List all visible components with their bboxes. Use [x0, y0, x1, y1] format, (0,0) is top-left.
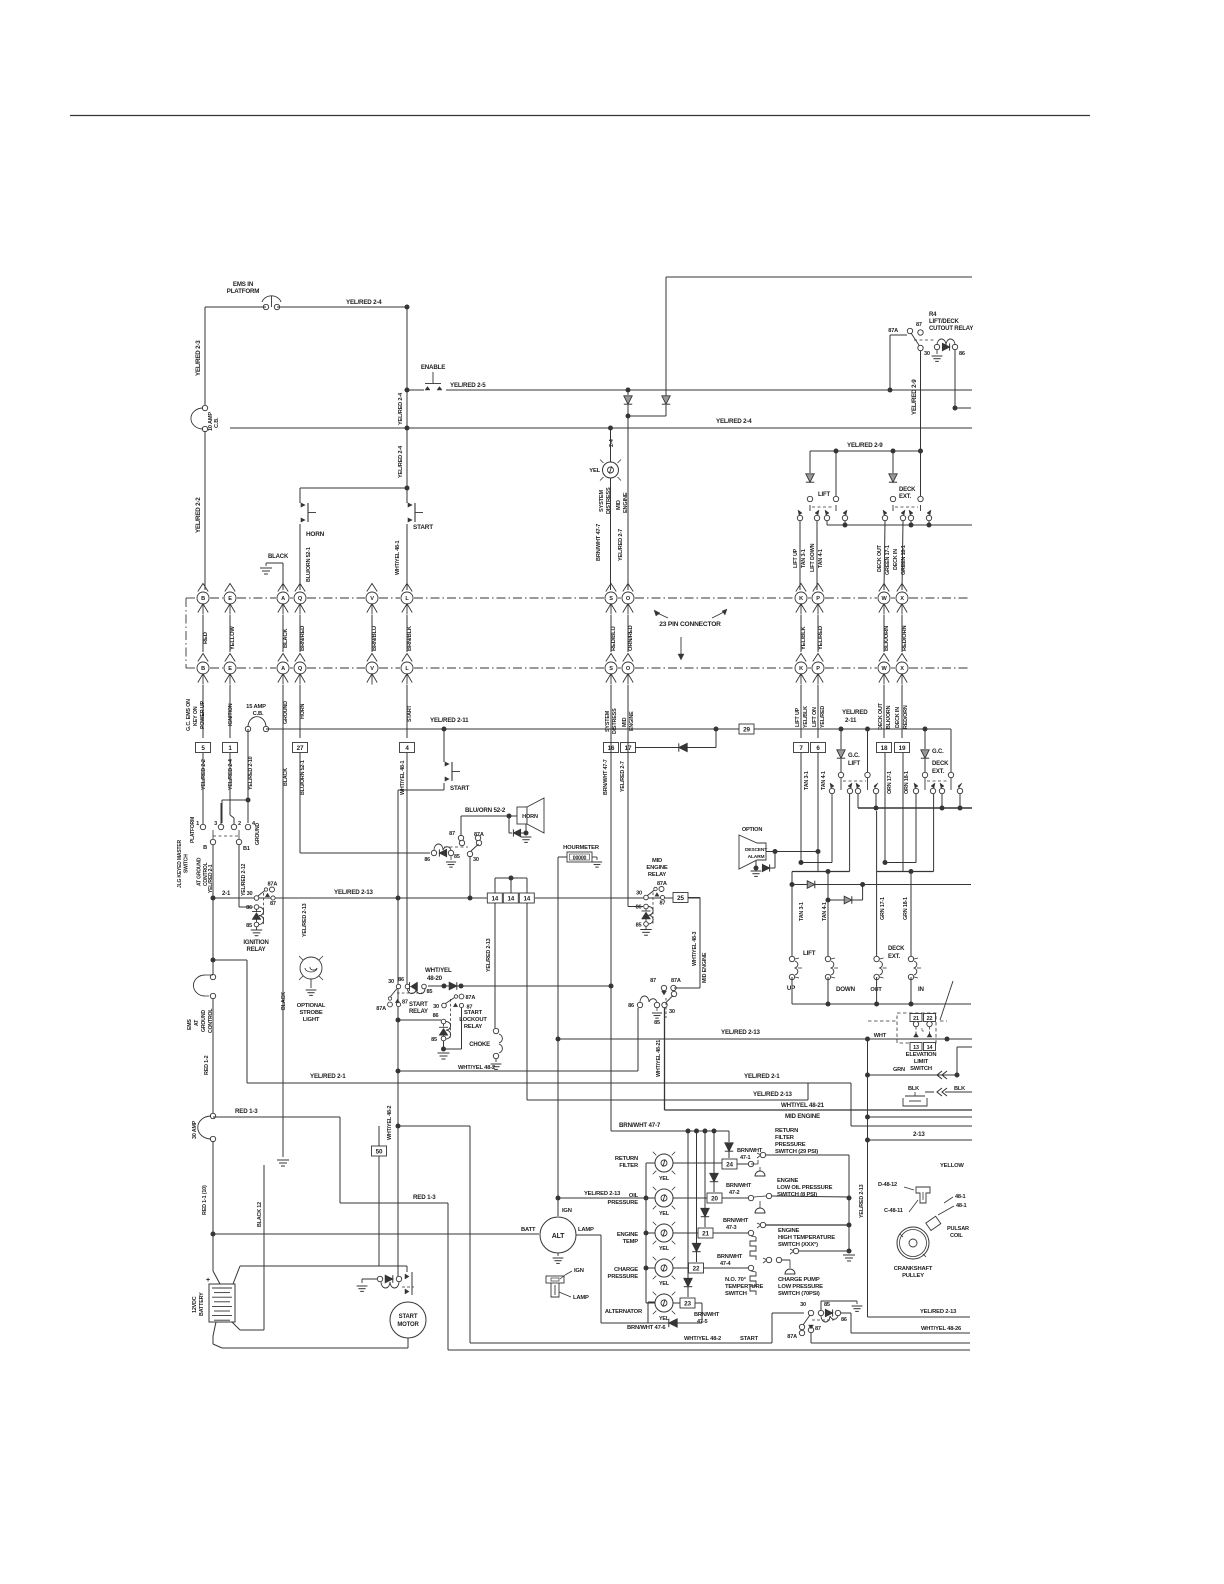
wire lift down drop [816, 521, 818, 590]
label WHT/YEL 48-21 y1110 [781, 1102, 825, 1109]
svg-text:ENGINE: ENGINE [629, 711, 635, 731]
wire between rows x372 [371, 615, 373, 652]
node bus a [843, 523, 848, 528]
svg-text:BLK: BLK [908, 1086, 919, 1092]
gc lift diode [837, 729, 861, 767]
label DECK EXT relay [899, 487, 916, 500]
elevation switch contacts [910, 1014, 936, 1051]
wire WHT/YEL 48-1 drop [406, 753, 408, 984]
svg-text:LIFT ON: LIFT ON [812, 707, 818, 727]
label BRN/WHT 47-1 [737, 1148, 763, 1161]
svg-text:DECK: DECK [899, 487, 916, 493]
svg-text:87A: 87A [787, 1334, 797, 1340]
node 2-13 c [468, 896, 473, 901]
wire deck out drop [884, 521, 885, 590]
svg-text:22: 22 [693, 1265, 700, 1272]
svg-text:BLK: BLK [954, 1086, 965, 1092]
node batt [211, 1232, 216, 1237]
svg-text:K: K [799, 596, 803, 602]
box 29 inline [739, 724, 754, 734]
wire start lower out [398, 783, 444, 790]
svg-text:YEL/RED 2-3: YEL/RED 2-3 [195, 340, 202, 376]
svg-text:DISTRESS: DISTRESS [606, 487, 612, 514]
svg-text:DESCENT: DESCENT [745, 847, 767, 853]
label YEL/RED 2-2 upper [195, 497, 202, 533]
svg-text:12VDC: 12VDC [192, 1296, 198, 1313]
lamp OIL PRESSURE [608, 1187, 676, 1217]
wire between rows x611 [610, 615, 612, 652]
svg-text:TAN 3-1: TAN 3-1 [804, 771, 810, 790]
svg-text:YEL/RED 2-13: YEL/RED 2-13 [920, 1309, 957, 1315]
ground pin A top [260, 563, 283, 590]
svg-text:YEL/RED 2-4: YEL/RED 2-4 [398, 445, 404, 478]
svg-text:B: B [203, 845, 207, 851]
svg-text:48-1: 48-1 [955, 1194, 966, 1200]
svg-text:2-1: 2-1 [222, 891, 231, 897]
switch 8psi [754, 1193, 849, 1213]
label D-48-12 [878, 1182, 897, 1188]
node sol ret c [909, 1002, 914, 1007]
label YEL/RED 2-13 main [334, 889, 373, 896]
solenoid LIFT UP [787, 885, 816, 993]
label WHT/YEL 48-1 upper [395, 541, 401, 575]
wire ems jog [213, 960, 247, 1083]
wire lamp3 to 21 [673, 1228, 754, 1238]
wire row2 to boxes x230 [229, 685, 231, 738]
wire distress lamp feed [610, 428, 612, 462]
relay AUX coil [812, 1302, 847, 1323]
svg-text:47-2: 47-2 [729, 1190, 740, 1196]
wire GRN line [865, 1047, 972, 1079]
relay R4 LIFT/DECK CUTOUT label [929, 312, 973, 332]
svg-text:47-1: 47-1 [740, 1155, 751, 1161]
label RED 1-2 [204, 1055, 210, 1075]
svg-text:87A: 87A [888, 328, 898, 334]
svg-text:RED 1-3: RED 1-3 [413, 1194, 436, 1201]
wire RED 1-3 c [447, 1203, 449, 1350]
svg-text:A: A [281, 596, 285, 602]
label WHT/YEL 48-26 [921, 1326, 962, 1332]
svg-text:SWITCH (70PSI): SWITCH (70PSI) [778, 1291, 820, 1297]
wire ground jog [222, 800, 248, 823]
svg-text:14: 14 [491, 895, 498, 902]
svg-text:00000: 00000 [573, 856, 587, 862]
svg-text:DOWN: DOWN [836, 986, 856, 993]
svg-text:WHT/YEL 48-1: WHT/YEL 48-1 [395, 541, 401, 575]
svg-text:BRN/WHT: BRN/WHT [723, 1218, 749, 1224]
svg-text:BLK/ORN: BLK/ORN [884, 626, 890, 651]
svg-text:MID ENGINE: MID ENGINE [702, 952, 708, 983]
wire y1100 up [807, 1083, 809, 1100]
circuit breaker 15 AMP [245, 704, 268, 732]
svg-text:WHT/YEL 48-21: WHT/YEL 48-21 [781, 1102, 825, 1109]
svg-text:87A: 87A [671, 978, 681, 984]
battery bottom lead [213, 1322, 408, 1348]
wire drop 22 [692, 1131, 700, 1262]
svg-text:85: 85 [636, 923, 642, 929]
label YEL/RED 2-11 right [842, 709, 868, 724]
solenoid DECK OUT [870, 811, 905, 993]
svg-text:BLU/ORN 52-1: BLU/ORN 52-1 [306, 547, 312, 582]
wire BLK line [908, 1086, 972, 1096]
label RED 1-1 [202, 1185, 208, 1215]
label START RELAY [409, 1002, 428, 1015]
relay R4 dashed link [914, 339, 934, 341]
svg-text:BLACK: BLACK [283, 628, 289, 648]
relay MIDENG2 coil [628, 996, 662, 1026]
label 2-13 y1140 [913, 1131, 925, 1138]
svg-text:2: 2 [238, 821, 241, 827]
wire box17 diode [635, 729, 716, 752]
svg-text:YEL/RED 2-7: YEL/RED 2-7 [620, 761, 626, 792]
svg-text:47-3: 47-3 [726, 1225, 737, 1231]
gc deck contact [922, 729, 953, 790]
svg-text:RED/ORN: RED/ORN [903, 705, 909, 729]
svg-text:START: START [464, 1010, 483, 1016]
wire WHT/YEL 48-2 drop [397, 790, 399, 1279]
svg-text:BLACK: BLACK [281, 992, 287, 1010]
relay MIDENG2 labels [650, 978, 681, 984]
svg-text:ORN 18-1: ORN 18-1 [904, 771, 910, 794]
wire start line y1343 [470, 1313, 804, 1343]
label BRN/WHT 47-4 [717, 1254, 743, 1267]
svg-text:C.B.: C.B. [214, 417, 220, 428]
label BRN/WHT 47-2 [726, 1183, 752, 1196]
labels orn mid [0, 0, 1, 1]
svg-text:UP: UP [787, 985, 795, 992]
svg-text:HORN: HORN [522, 814, 538, 820]
svg-text:85: 85 [246, 923, 252, 929]
relay MIDENG2 contact [661, 985, 676, 1018]
svg-text:START: START [399, 1314, 418, 1320]
choke CHOKE [469, 1028, 502, 1069]
wire gc out bus [858, 794, 972, 808]
node gc bus c [958, 806, 963, 811]
wire alarm out [766, 851, 818, 853]
labels under boxes [201, 759, 910, 795]
svg-text:DECK OUT: DECK OUT [878, 702, 884, 730]
node 477 3 [712, 1129, 717, 1134]
wire between rows x801 [800, 615, 802, 652]
relay R4 contact [888, 322, 930, 357]
svg-text:AT GROUND: AT GROUND [197, 857, 203, 886]
svg-text:14: 14 [523, 895, 530, 902]
switch 70deg [750, 1257, 795, 1295]
svg-text:LIGHT: LIGHT [303, 1017, 320, 1023]
wire B1 YEL/RED 2-12 [239, 845, 253, 907]
node sc2 [847, 1223, 852, 1228]
wire strip left down [494, 903, 496, 1028]
switch HORN [300, 488, 325, 538]
wire row2 to boxes x283 [282, 685, 284, 738]
node sr c [609, 984, 614, 989]
wire drop 23 [684, 1131, 692, 1297]
svg-text:27: 27 [297, 745, 304, 752]
wire switch common [848, 1155, 850, 1251]
wire ems to breaker [212, 999, 214, 1114]
svg-text:3: 3 [214, 821, 217, 827]
wire y1039 elevation line [558, 1038, 972, 1040]
svg-text:LIFT/DECK: LIFT/DECK [929, 319, 960, 325]
svg-text:BLU/ORN 52-1: BLU/ORN 52-1 [300, 760, 306, 795]
svg-text:COIL: COIL [950, 1233, 963, 1239]
pin E row1 [224, 584, 236, 615]
svg-text:86: 86 [841, 1317, 847, 1323]
label START LOCKOUT RELAY [459, 1010, 487, 1030]
wire L col YEL/RED 2-4 [406, 307, 408, 488]
node gclift b [865, 727, 870, 732]
svg-text:87: 87 [660, 901, 666, 907]
ground switch common [843, 1255, 855, 1261]
wire solenoid return bus [792, 977, 971, 1004]
svg-text:YEL/BLK: YEL/BLK [801, 625, 807, 650]
wire 48-2 y1126 [396, 1124, 471, 1344]
svg-text:LIFT: LIFT [818, 492, 830, 498]
label YEL/RED 2-12 [241, 864, 247, 896]
svg-text:ENGINE: ENGINE [617, 1232, 638, 1238]
diode LIFT [806, 451, 814, 482]
wire alt lamp out [576, 1235, 601, 1323]
wire lamp5 to 23 [673, 1298, 702, 1308]
svg-text:YEL/RED 2-13: YEL/RED 2-13 [302, 903, 308, 937]
svg-text:PRESSURE: PRESSURE [775, 1142, 806, 1148]
svg-text:30: 30 [636, 891, 642, 897]
pin S row2 [605, 654, 617, 685]
terminal box 7 [794, 743, 809, 753]
box 50 [372, 1126, 387, 1266]
wire YEL/RED 2-13 y1318 [868, 1316, 971, 1318]
label 23 PIN CONNECTOR [654, 609, 727, 660]
svg-text:85: 85 [431, 1037, 437, 1043]
svg-text:SWITCH: SWITCH [725, 1291, 747, 1297]
svg-text:2-13: 2-13 [913, 1131, 925, 1138]
label YEL/RED 2-1 b [744, 1073, 780, 1080]
svg-text:86: 86 [424, 857, 430, 863]
svg-text:YEL/RED 2-2: YEL/RED 2-2 [201, 759, 207, 790]
svg-text:G.C. EMS ON: G.C. EMS ON [186, 699, 192, 731]
switch START lower [444, 729, 470, 792]
relay HORN coil [424, 844, 459, 867]
relay contact LIFT platform [807, 451, 838, 511]
connector row 2 dash-dot [186, 667, 968, 669]
alternator ALT [540, 1217, 576, 1253]
svg-text:GREEN 17-1: GREEN 17-1 [885, 545, 891, 575]
start solenoid contact [405, 1266, 412, 1295]
svg-text:CUTOUT RELAY: CUTOUT RELAY [929, 326, 973, 332]
wire right riser [867, 1039, 869, 1317]
wire lift up drop [799, 521, 801, 590]
svg-text:LOW PRESSURE: LOW PRESSURE [778, 1284, 823, 1290]
switch 29psi [751, 1152, 849, 1176]
node 2-4 at distress wire [608, 426, 615, 448]
terminal box 17 [621, 743, 636, 753]
svg-text:BRN/WHT 47-7: BRN/WHT 47-7 [596, 524, 602, 561]
label MID ENGINE vert [702, 952, 708, 983]
label YEL/RED 2-11 [430, 717, 469, 724]
label NO 70 switch [725, 1277, 763, 1297]
wire deck bold bus [877, 794, 934, 872]
wire row2 to boxes x407 [406, 685, 408, 738]
pin W row1 [878, 584, 890, 615]
svg-text:WHT/YEL 48-2: WHT/YEL 48-2 [387, 1106, 393, 1140]
svg-text:D-48-12: D-48-12 [878, 1182, 897, 1188]
svg-text:RED/BLU: RED/BLU [611, 626, 617, 651]
svg-text:YEL/RED 2-13: YEL/RED 2-13 [721, 1029, 760, 1036]
label YEL/RED 2-13 y1100 [753, 1091, 792, 1098]
svg-text:B: B [201, 666, 205, 672]
solenoid DECK IN [908, 874, 924, 993]
diode start lockout feed [449, 982, 457, 990]
wire lift bold bus [792, 794, 850, 874]
wire row2 to boxes x300 [299, 685, 301, 738]
label EMS at ground [187, 1008, 214, 1033]
svg-text:87: 87 [815, 1326, 821, 1332]
wire mideng2 87 up [663, 985, 665, 988]
label YEL/RED 2-1 a [310, 1073, 346, 1080]
label WHT/YEL 48-2 vert [387, 1106, 393, 1140]
svg-text:C.B.: C.B. [253, 711, 264, 717]
svg-text:HOURMETER: HOURMETER [563, 845, 600, 851]
svg-text:YEL/BLK: YEL/BLK [803, 706, 809, 728]
svg-text:LIFT: LIFT [848, 761, 860, 767]
horn speaker [517, 798, 544, 833]
pin P row2 [812, 654, 824, 685]
node 477 2 [703, 1129, 708, 1134]
svg-text:MOTOR: MOTOR [397, 1322, 419, 1328]
relay MIDENG [636, 881, 667, 935]
node 2-9 c [918, 449, 923, 454]
wire BATT line [213, 1233, 539, 1235]
svg-text:LIMIT: LIMIT [914, 1059, 929, 1065]
svg-text:SWITCH: SWITCH [910, 1066, 932, 1072]
label RED 1-3 a [235, 1108, 258, 1115]
svg-text:18: 18 [881, 745, 888, 752]
svg-text:BLK/ORN: BLK/ORN [886, 705, 892, 729]
svg-text:RELAY: RELAY [648, 872, 667, 878]
svg-text:BRN/WHT 47-7: BRN/WHT 47-7 [603, 759, 609, 795]
wire BRN/WHT 47-7 bus [611, 1130, 729, 1132]
svg-text:RETURN: RETURN [615, 1156, 638, 1162]
svg-text:PLATFORM: PLATFORM [227, 288, 259, 295]
svg-text:B1: B1 [243, 846, 250, 852]
svg-text:LOW OIL PRESSURE: LOW OIL PRESSURE [777, 1185, 833, 1191]
wire between rows x407 [406, 615, 408, 652]
wire tan4-1 from box6 [817, 753, 819, 872]
terminal box 27 [293, 743, 308, 753]
terminal strip 14s [487, 893, 534, 903]
wire deck in drop [902, 521, 903, 590]
svg-text:HORN: HORN [300, 704, 306, 719]
svg-text:SWITCH (29 PSI): SWITCH (29 PSI) [775, 1149, 818, 1155]
svg-text:YELLOW: YELLOW [230, 626, 236, 650]
label YEL/RED 2-5 [450, 382, 486, 389]
pin L row2 [401, 654, 413, 685]
wire between rows x628 [627, 615, 629, 652]
wire y884 line [790, 872, 972, 888]
svg-text:WHT: WHT [874, 1033, 887, 1039]
node lamp b2 [644, 1231, 649, 1236]
svg-text:SYSTEM: SYSTEM [599, 490, 605, 512]
node gc bus a [874, 806, 879, 811]
svg-text:YEL/RED 2-13: YEL/RED 2-13 [334, 889, 373, 896]
gc lift pins [829, 783, 878, 794]
wire YEL/RED 2-11 [266, 728, 951, 730]
svg-text:DECK: DECK [888, 946, 905, 952]
node 477 0 [686, 1129, 691, 1134]
pin W row2 [878, 654, 890, 685]
svg-text:LAMP: LAMP [578, 1227, 594, 1233]
labels tan vertical [799, 902, 828, 921]
label YEL/RED 2-4 top [346, 299, 382, 306]
wire lift jog a [799, 794, 833, 865]
svg-text:30: 30 [473, 857, 479, 863]
master switch terminals [196, 821, 261, 845]
svg-text:CHOKE: CHOKE [469, 1042, 490, 1048]
svg-text:87: 87 [449, 831, 455, 837]
svg-text:BATTERY: BATTERY [199, 1292, 205, 1316]
connector left bracket [185, 598, 187, 668]
svg-text:SWITCH (XXX°): SWITCH (XXX°) [778, 1242, 818, 1248]
svg-text:JLG KEYED MASTER: JLG KEYED MASTER [177, 839, 183, 888]
solenoid LIFT DOWN [825, 903, 855, 993]
connector row 1 dash-dot [186, 597, 968, 599]
svg-text:47-4: 47-4 [720, 1261, 732, 1267]
node y1039 right [865, 1037, 870, 1042]
relay LOCKOUT contact [433, 994, 475, 1038]
wire row2 to boxes x884 [883, 685, 885, 738]
svg-text:TAN 4-1: TAN 4-1 [821, 771, 827, 790]
svg-text:WHT/YEL 48-2: WHT/YEL 48-2 [684, 1336, 721, 1342]
box 24 [673, 1159, 754, 1169]
svg-text:YEL: YEL [659, 1211, 670, 1217]
svg-text:RED 1-1 (10): RED 1-1 (10) [202, 1185, 208, 1215]
svg-text:BLACK 12: BLACK 12 [257, 1202, 263, 1227]
label YEL/RED 2-9 [847, 442, 883, 449]
wire y1083 right drop [851, 1083, 972, 1126]
svg-text:ALARM: ALARM [748, 854, 765, 860]
label BLU/ORN 52-1 upper [306, 547, 312, 582]
elevation pointer [940, 981, 953, 1020]
spark plug right [904, 1187, 930, 1212]
terminal box 1 [223, 743, 238, 753]
svg-text:OPTION: OPTION [742, 827, 763, 833]
svg-text:A: A [281, 666, 285, 672]
wire y900 branch [826, 872, 863, 957]
terminal box 19 [895, 743, 910, 753]
contact pins deck [882, 510, 931, 521]
label WHT/YEL 48-2 bottom [684, 1336, 721, 1342]
pin A row2 [277, 654, 289, 685]
label WHT/YEL 48-21 vert [656, 1040, 662, 1077]
wire between rows x300 [299, 615, 301, 652]
wire horn line [461, 814, 517, 819]
svg-text:85: 85 [427, 989, 433, 995]
wire top corner down [665, 277, 667, 396]
svg-text:23 PIN CONNECTOR: 23 PIN CONNECTOR [659, 621, 721, 628]
wire lamp line y1198 [558, 1197, 646, 1199]
svg-text:14: 14 [507, 895, 514, 902]
svg-text:LIFT: LIFT [803, 950, 816, 957]
label BLACK vert mid [281, 992, 287, 1010]
switch START [407, 488, 433, 531]
lamp SYSTEM DISTRESS [589, 460, 621, 481]
svg-text:CHARGE PUMP: CHARGE PUMP [778, 1277, 820, 1283]
wire start to pin L [406, 524, 408, 590]
svg-text:LIFT DOWN: LIFT DOWN [810, 543, 816, 572]
label YEL/RED 2-13 vert a [302, 903, 308, 937]
pin S row1 [605, 584, 617, 615]
pin V row1 [366, 584, 378, 615]
